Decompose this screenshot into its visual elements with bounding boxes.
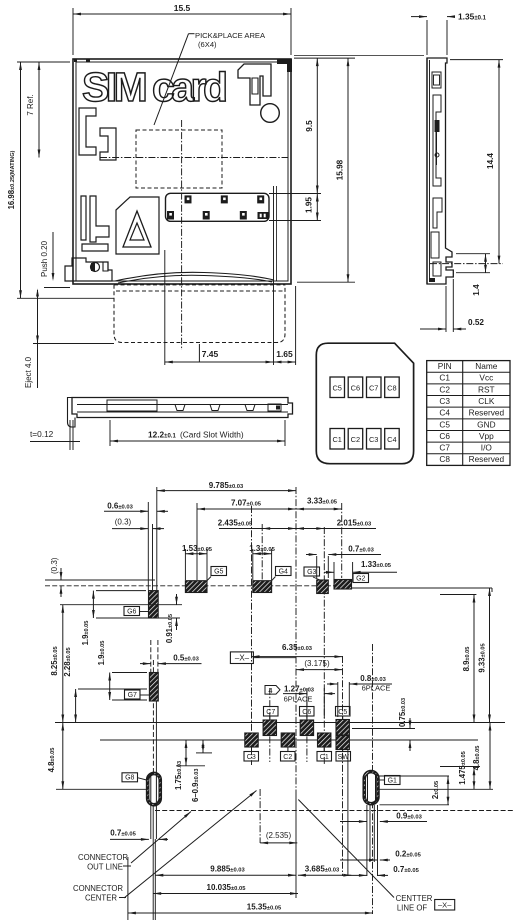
svg-text:C7: C7 <box>439 443 450 453</box>
svg-text:C1: C1 <box>332 435 341 444</box>
svg-text:7.45: 7.45 <box>202 349 219 359</box>
svg-text:C3: C3 <box>247 754 256 761</box>
svg-text:G8: G8 <box>125 775 134 782</box>
svg-text:I/O: I/O <box>481 443 493 453</box>
svg-text:SIM card: SIM card <box>82 64 228 110</box>
svg-text:14.4: 14.4 <box>486 153 495 169</box>
svg-text:Name: Name <box>475 361 498 371</box>
svg-text:C1: C1 <box>320 754 329 761</box>
svg-text:RST: RST <box>478 384 495 394</box>
svg-text:(0.3): (0.3) <box>50 557 59 574</box>
svg-text:6PLACE: 6PLACE <box>362 684 391 693</box>
svg-text:15.5: 15.5 <box>174 3 191 13</box>
svg-text:(0.3): (0.3) <box>115 518 132 527</box>
svg-text:(2.535): (2.535) <box>266 831 292 840</box>
svg-text:Reserved: Reserved <box>469 408 505 418</box>
svg-text:Vpp: Vpp <box>479 431 494 441</box>
svg-text:–X–: –X– <box>235 654 250 663</box>
svg-text:C4: C4 <box>387 435 396 444</box>
svg-text:G5: G5 <box>214 568 223 575</box>
svg-text:C2: C2 <box>351 435 360 444</box>
svg-text:G6: G6 <box>127 608 136 615</box>
svg-text:15.98: 15.98 <box>336 159 345 180</box>
svg-text:C6: C6 <box>351 384 360 393</box>
svg-text:C8: C8 <box>387 384 396 393</box>
svg-text:C1: C1 <box>439 373 450 383</box>
svg-text:PIN: PIN <box>438 361 452 371</box>
svg-text:t=0.12: t=0.12 <box>30 429 54 439</box>
svg-text:GND: GND <box>477 419 495 429</box>
svg-text:(Card Slot Width): (Card Slot Width) <box>180 430 244 440</box>
svg-text:–X–: –X– <box>438 901 452 910</box>
svg-text:4: 4 <box>268 686 272 695</box>
svg-text:G7: G7 <box>128 692 137 699</box>
svg-text:C4: C4 <box>439 408 450 418</box>
svg-text:C5: C5 <box>332 384 341 393</box>
svg-text:C7: C7 <box>266 709 275 716</box>
svg-text:OUT LINE: OUT LINE <box>87 863 123 872</box>
svg-text:Eject 4.0: Eject 4.0 <box>24 356 33 388</box>
svg-text:G3: G3 <box>307 569 316 576</box>
svg-text:9.5: 9.5 <box>305 120 314 132</box>
svg-text:C7: C7 <box>369 384 378 393</box>
svg-text:C5: C5 <box>439 419 450 429</box>
svg-text:LINE OF: LINE OF <box>397 904 428 913</box>
svg-text:C5: C5 <box>338 709 347 716</box>
svg-text:PICK&PLACE AREA: PICK&PLACE AREA <box>195 31 266 40</box>
svg-text:7 Ref.: 7 Ref. <box>26 94 35 115</box>
svg-text:G1: G1 <box>388 777 397 784</box>
svg-text:CONNECTOR: CONNECTOR <box>73 884 123 893</box>
svg-text:0.52: 0.52 <box>468 318 484 327</box>
svg-text:SW: SW <box>338 754 350 761</box>
svg-text:1.65: 1.65 <box>276 349 293 359</box>
svg-text:CENTTER: CENTTER <box>396 894 433 903</box>
svg-text:C8: C8 <box>439 454 450 464</box>
svg-text:C2: C2 <box>283 754 292 761</box>
svg-text:(3.175): (3.175) <box>304 659 330 668</box>
svg-text:Reserved: Reserved <box>469 454 505 464</box>
svg-text:CLK: CLK <box>478 396 495 406</box>
svg-text:C3: C3 <box>439 396 450 406</box>
svg-text:(6X4): (6X4) <box>198 40 217 49</box>
svg-text:C6: C6 <box>439 431 450 441</box>
svg-text:1.95: 1.95 <box>305 197 314 213</box>
svg-text:CONNECTOR: CONNECTOR <box>78 853 128 862</box>
svg-text:C3: C3 <box>369 435 378 444</box>
svg-text:CENTER: CENTER <box>85 894 117 903</box>
svg-text:Vcc: Vcc <box>479 373 493 383</box>
svg-text:C2: C2 <box>439 384 450 394</box>
svg-text:1.4: 1.4 <box>472 284 481 296</box>
svg-text:G4: G4 <box>279 568 288 575</box>
svg-text:G2: G2 <box>356 575 365 582</box>
svg-text:6PLACE: 6PLACE <box>284 695 313 704</box>
svg-text:Push 0.20: Push 0.20 <box>40 240 49 277</box>
